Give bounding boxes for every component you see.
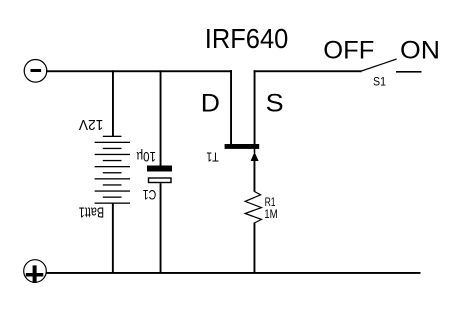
svg-text:T1: T1: [206, 150, 219, 165]
resistor R1: [245, 192, 261, 224]
terminal plus: [24, 260, 47, 283]
svg-text:12V: 12V: [79, 116, 104, 133]
svg-text:Batt1: Batt1: [79, 204, 105, 221]
svg-text:C1: C1: [143, 187, 157, 203]
wire battery bottom lead: [112, 204, 114, 273]
wire battery top lead: [112, 70, 114, 136]
svg-text:ON: ON: [400, 37, 440, 65]
wire bottom rail: [46, 272, 421, 274]
terminal minus: [24, 60, 47, 83]
wire resistor bottom lead: [254, 223, 256, 273]
switch S1 lever: [362, 59, 397, 71]
svg-text:10µ: 10µ: [136, 149, 156, 164]
wire resistor top lead: [254, 161, 256, 192]
wire source branch: [254, 70, 256, 144]
transistor T1 body arrow: [251, 152, 259, 161]
battery Batt1: [95, 136, 130, 204]
transistor T1 channel bar: [225, 144, 260, 149]
wire drain branch: [230, 70, 232, 144]
svg-text:S1: S1: [373, 75, 386, 89]
wire top rail right: [254, 70, 362, 72]
svg-text:S: S: [266, 90, 284, 118]
wire capacitor bottom lead: [160, 183, 162, 272]
capacitor C1: [147, 166, 172, 183]
svg-text:IRF640: IRF640: [205, 23, 288, 54]
transistor T1 stem: [254, 149, 256, 153]
wire capacitor top lead: [160, 70, 162, 165]
svg-text:D: D: [201, 90, 220, 118]
svg-text:OFF: OFF: [323, 37, 374, 65]
switch S1 fixed contact: [396, 71, 422, 73]
wire top rail left: [46, 70, 232, 72]
svg-text:1M: 1M: [264, 207, 278, 221]
